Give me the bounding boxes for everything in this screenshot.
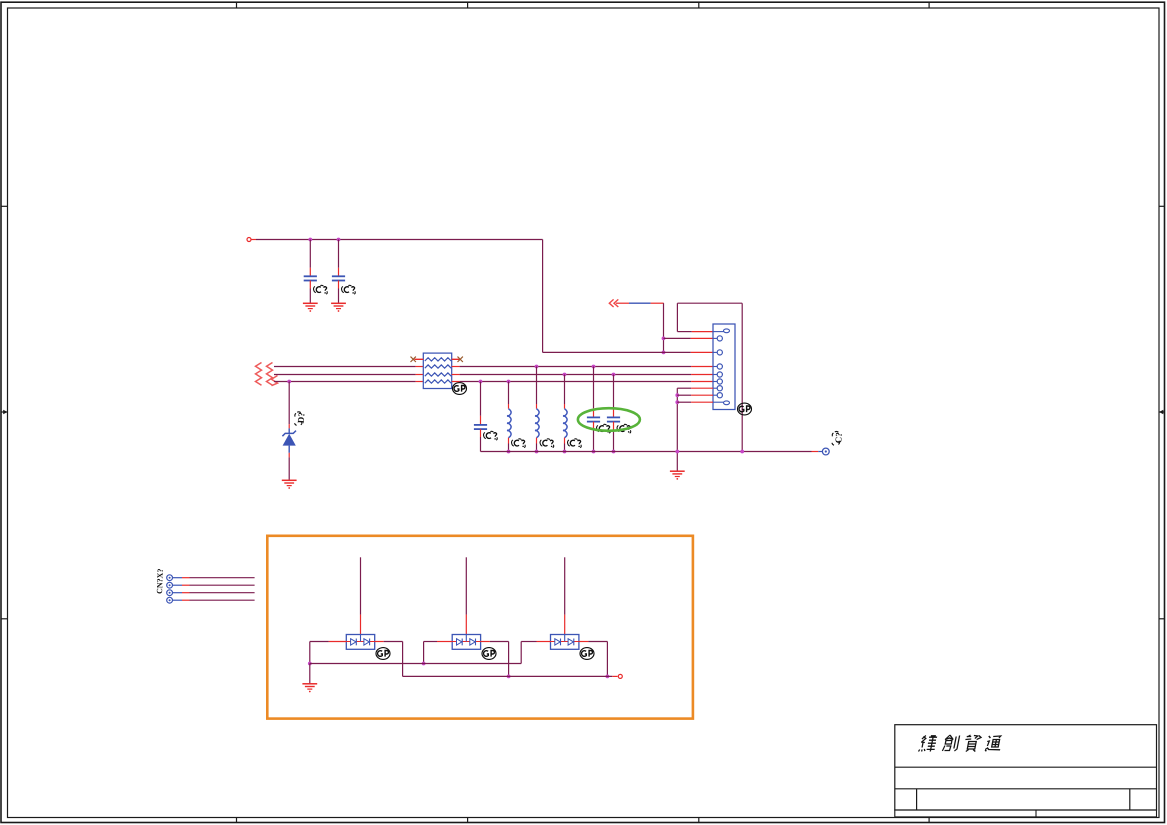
border zone tick bottom 4	[928, 818, 930, 823]
bus wire 1 right	[452, 366, 713, 368]
connector J1 pin9	[713, 401, 730, 405]
inductor L3 lower wire	[564, 438, 566, 452]
connector J1 pin2	[713, 336, 722, 341]
no-connect X right	[458, 357, 463, 362]
capacitor C4 lower wire	[593, 422, 595, 452]
torn-wire zigzag marks column A	[256, 363, 262, 386]
node junction chevron-pin2	[662, 337, 666, 341]
highlight ellipse (green)	[578, 408, 640, 431]
border zone tick top 3	[698, 2, 700, 8]
inductor L2 label	[540, 439, 554, 448]
wire U1 left lead	[310, 642, 347, 664]
node junction at C2	[337, 238, 341, 242]
inductor L1 label	[512, 439, 526, 448]
wire U3 right lead	[579, 642, 608, 677]
bus wire 3 right	[452, 381, 713, 383]
wire to pin9	[677, 401, 713, 403]
wire to pin8	[677, 394, 713, 396]
title block frame	[895, 725, 1157, 817]
company name text (CJK drawn as strokes)	[918, 735, 1002, 752]
capacitor C5	[607, 417, 620, 421]
capacitor C4 label	[597, 424, 611, 433]
wire top-right horizontal	[677, 302, 742, 304]
off-page chevron connector	[609, 299, 618, 307]
node junction right vertical rail	[740, 450, 744, 454]
svg-text:C?: C?	[833, 432, 844, 444]
wire vertical pins7-9 to ground	[677, 388, 713, 471]
capacitor C1 label	[314, 285, 328, 294]
border zone tick bottom 1	[236, 818, 238, 823]
border zone tick right 1	[1159, 205, 1165, 207]
wire lower horizontal 1	[310, 663, 521, 665]
wire U1 right lead	[375, 642, 403, 677]
wire top drop to U2	[465, 557, 467, 634]
node junction L2 rail	[535, 450, 539, 454]
connector J1 pin1	[713, 329, 730, 333]
transformer T1 GP label	[453, 383, 467, 395]
capacitor C4	[587, 417, 600, 421]
capacitor C4 drop wire upper	[593, 367, 595, 418]
border zone tick bottom 3	[698, 818, 700, 823]
node junction pin9 wire	[675, 400, 679, 404]
inductor L3 label	[568, 439, 582, 448]
wire to pin3	[543, 351, 713, 353]
torn-wire zigzag marks column C	[272, 376, 278, 386]
node junction drop1	[479, 380, 483, 384]
bottom rail wire	[481, 451, 823, 453]
node junction U3 right	[606, 675, 610, 679]
border zone tick left 2	[1, 618, 8, 620]
connector CN2 pin c	[167, 590, 182, 596]
diode pair U1	[346, 635, 374, 650]
node junction at C1	[308, 238, 312, 242]
connector J1 pin8	[713, 393, 722, 398]
node junction U2 right	[507, 675, 511, 679]
border zone tick left 1	[1, 205, 8, 207]
border zone tick top 4	[928, 2, 930, 8]
connector CN2 pin b	[167, 582, 182, 588]
connector J1 pin7	[713, 386, 722, 391]
capacitor C2 lead wire	[338, 240, 340, 277]
connector J1 box	[713, 324, 735, 410]
border zone arrow left	[1, 410, 8, 414]
connector J1 pin4	[713, 364, 722, 369]
zener D1 lower wire	[288, 453, 290, 480]
wire U2 right lead	[481, 642, 509, 677]
wire U3 left lead	[521, 642, 550, 664]
node junction drop6	[612, 373, 616, 377]
wire CN2 b	[182, 584, 255, 586]
terminal T1 (top-left input)	[247, 238, 256, 242]
node junction L1 rail	[507, 450, 511, 454]
no-connect stub right pin	[452, 358, 461, 360]
svg-text:CN?X?: CN?X?	[155, 568, 165, 594]
inductor L2 drop wire upper	[536, 367, 538, 409]
node junction ground rail	[675, 450, 679, 454]
chevron wire (red-blue-red)	[616, 302, 664, 304]
border zone tick top 1	[236, 2, 238, 8]
connector CN2 pin a	[167, 575, 182, 581]
ground below C1	[303, 303, 318, 312]
capacitor C3 lower wire	[480, 429, 482, 451]
node junction U1 left	[308, 662, 312, 666]
inductor L1 lower wire	[508, 438, 510, 452]
wire U2 left lead	[424, 642, 453, 664]
node junction drop5	[592, 365, 596, 369]
transformer/filter T1 box	[423, 353, 451, 388]
wire top vertical down to connector row	[542, 240, 544, 353]
node junction drop3	[535, 365, 539, 369]
border zone tick right 2	[1159, 618, 1165, 620]
no-connect stub left pin1	[415, 358, 424, 360]
capacitor C5 drop wire upper	[613, 375, 615, 418]
capacitor C3 label	[484, 431, 498, 440]
ground below C2	[331, 303, 346, 312]
inductor L3	[563, 409, 567, 438]
bus wire 2 left	[274, 374, 423, 376]
ground below connector	[670, 471, 685, 480]
capacitor C2 lower wire	[338, 281, 340, 303]
wire CN2 a	[182, 577, 255, 579]
border zone tick bottom 2	[467, 818, 469, 823]
node junction drop4	[563, 373, 567, 377]
node junction C5 rail	[612, 450, 616, 454]
connector CN2 label (vertical)	[155, 568, 165, 594]
zener D1 label	[295, 412, 307, 426]
inductor L1	[507, 409, 511, 438]
diode pair U2 GP label	[482, 648, 496, 660]
diode pair U3	[551, 635, 579, 650]
inductor L3 drop wire upper	[564, 375, 566, 409]
wire to lower ground	[309, 664, 311, 684]
connector J1 GP label	[738, 403, 752, 415]
node junction pin8 wire	[675, 393, 679, 397]
connector J1 pin6	[713, 379, 722, 384]
connector J1 pin3	[713, 350, 722, 355]
capacitor C5 lower wire	[613, 422, 615, 452]
border zone tick top 2	[467, 2, 469, 8]
inductor L2	[535, 409, 539, 438]
no-connect X left	[411, 357, 416, 362]
terminal T2 (right output)	[822, 448, 829, 455]
wire CN2 c	[182, 592, 255, 594]
zener diode D1 branch junction	[287, 380, 291, 384]
diode pair U1 GP label	[376, 648, 390, 660]
node junction drop2	[507, 380, 511, 384]
torn-wire zigzag marks column B	[267, 363, 273, 386]
wire top drop to U1	[360, 557, 362, 634]
capacitor C5 label	[617, 424, 631, 433]
terminal T2 label	[832, 431, 844, 445]
capacitor C1	[304, 276, 317, 280]
node junction C4 rail	[592, 450, 596, 454]
highlight box (orange)	[267, 536, 693, 719]
capacitor C2	[332, 276, 345, 280]
wire lower horizontal 2	[403, 675, 618, 677]
wire vertical to pin1	[677, 303, 713, 331]
capacitor C1 lead wire	[309, 240, 311, 277]
wire vertical from chevron	[663, 303, 665, 352]
wire right vertical (pin10 net)	[741, 303, 743, 451]
node junction pin3	[662, 351, 666, 355]
capacitor C1 lower wire	[309, 281, 311, 303]
bus wire 1 left	[274, 366, 423, 368]
border zone arrow right	[1159, 410, 1165, 414]
wire CN2 d	[182, 599, 255, 601]
diode pair U2	[452, 635, 480, 650]
node junction U2 left	[422, 662, 426, 666]
terminal T3	[618, 674, 622, 678]
wire to pin2	[664, 337, 714, 339]
connector J1 pin5	[713, 372, 722, 377]
diode pair U3 GP label	[580, 648, 594, 660]
zener D1 upper wire	[288, 382, 290, 429]
node junction L3 rail	[563, 450, 567, 454]
bus wire 2 right	[452, 374, 713, 376]
wire top horizontal	[256, 239, 543, 241]
connector CN2 pin d	[167, 597, 182, 603]
inductor L2 lower wire	[536, 438, 538, 452]
capacitor C3 drop wire upper	[480, 382, 482, 425]
wire top drop to U3	[564, 557, 566, 634]
capacitor C3	[474, 425, 487, 429]
capacitor C2 label	[342, 285, 356, 294]
zener D1	[282, 428, 296, 452]
bus wire 3 left	[274, 381, 423, 383]
inductor L1 drop wire upper	[508, 382, 510, 409]
ground lower section	[302, 684, 317, 693]
ground below zener	[282, 480, 297, 489]
